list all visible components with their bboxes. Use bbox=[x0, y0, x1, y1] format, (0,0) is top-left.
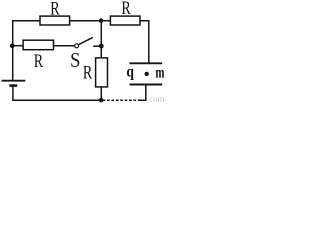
resistor R4 (vertical) bbox=[96, 58, 108, 87]
charged ball between capacitor plates bbox=[145, 72, 149, 76]
battery short plate (-) bbox=[9, 84, 17, 87]
svg-text:com: com bbox=[149, 94, 165, 104]
node B junction dot (left vertical) bbox=[10, 43, 15, 48]
wire left vertical from top corner to battery bbox=[12, 20, 14, 80]
wire R2 right to top-right corner down to capacitor top plate bbox=[140, 21, 149, 63]
svg-text:R: R bbox=[34, 50, 43, 71]
svg-text:R: R bbox=[50, 0, 59, 19]
switch S lever bbox=[79, 37, 93, 44]
node C junction dot (switch to mid vertical) bbox=[99, 44, 104, 49]
wire top-left horizontal bbox=[12, 20, 40, 22]
resistor R3 (middle row) bbox=[23, 40, 53, 50]
switch S contact circle bbox=[75, 44, 79, 48]
svg-text:S: S bbox=[70, 49, 80, 72]
wire switch to node C bbox=[93, 45, 101, 47]
wire capacitor bottom plate down to bottom-right corner bbox=[141, 85, 146, 100]
node A junction dot (top wire) bbox=[99, 18, 104, 23]
wire between R1 and node A bbox=[70, 20, 111, 22]
wire bottom from battery to node D bbox=[12, 99, 101, 101]
wire R4 bottom to node D bbox=[100, 87, 102, 101]
wire battery bottom vertical bbox=[12, 87, 14, 101]
wire R3 to switch S bbox=[54, 45, 75, 47]
wire mid vertical node A to resistor R4 bbox=[100, 20, 102, 58]
resistor R2 (top right) bbox=[110, 16, 140, 25]
wire dashed bottom segment bbox=[103, 99, 140, 101]
resistor R1 (top left) bbox=[40, 16, 70, 25]
capacitor C top plate bbox=[130, 62, 163, 64]
svg-text:R: R bbox=[83, 61, 92, 82]
capacitor C bottom plate bbox=[130, 84, 163, 86]
battery long plate (+) bbox=[2, 80, 26, 82]
wire row2 from node B to resistor R3 bbox=[12, 45, 23, 47]
svg-text:R: R bbox=[121, 0, 130, 19]
node D junction dot (bottom wire) bbox=[99, 98, 104, 103]
svg-text:q: q bbox=[126, 63, 134, 80]
svg-text:m: m bbox=[155, 64, 165, 82]
